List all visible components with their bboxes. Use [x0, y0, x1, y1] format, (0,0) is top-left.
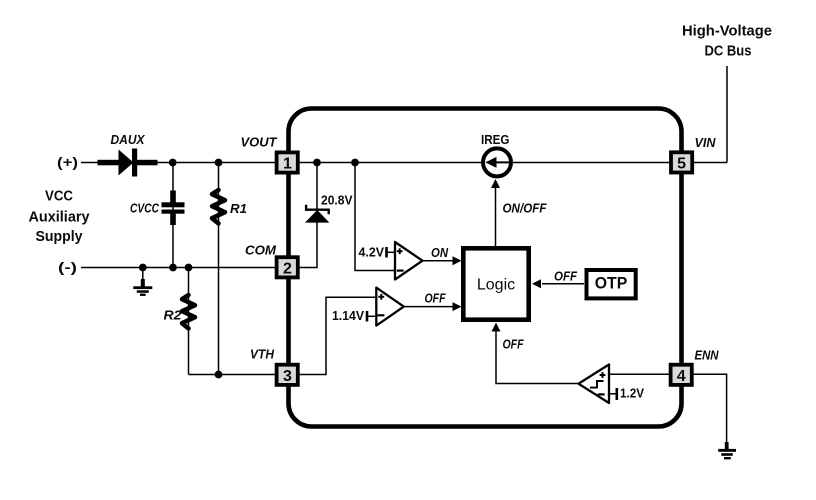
- resistor R1: [212, 190, 225, 224]
- zener diode 20.8V: [305, 205, 329, 223]
- wire OTP to Logic: [542, 283, 584, 285]
- wire VOUT rail external: [81, 162, 276, 164]
- svg-text:4.2V: 4.2V: [359, 246, 385, 260]
- wire pin3 to comparator2 plus: [299, 297, 376, 374]
- svg-text:20.8V: 20.8V: [321, 194, 353, 208]
- svg-text:VTH: VTH: [250, 348, 275, 362]
- junction dot VOUT-comp feed: [351, 159, 359, 167]
- Logic block: [463, 248, 528, 319]
- svg-text:1.2V: 1.2V: [620, 387, 645, 401]
- IC body outline: [289, 109, 682, 427]
- arrowhead OFF into Logic: [453, 302, 462, 311]
- svg-text:Logic: Logic: [477, 277, 515, 294]
- svg-text:Auxiliary: Auxiliary: [29, 210, 90, 226]
- svg-text:OFF: OFF: [503, 338, 524, 352]
- svg-text:1: 1: [283, 156, 292, 173]
- wire COM rail: [81, 267, 276, 269]
- current source IREG: [483, 148, 511, 176]
- reference 1.14V bar: [366, 311, 369, 322]
- wire 4.2V ref to plus input: [387, 251, 396, 253]
- wire ground stub left: [142, 268, 144, 282]
- ground left: [133, 279, 152, 296]
- wire pin4 external to ground: [693, 374, 727, 444]
- arrowhead ON into Logic: [453, 256, 462, 265]
- junction dot COM-R2: [185, 264, 193, 272]
- junction dot VOUT-zener: [313, 159, 321, 167]
- svg-text:R1: R1: [230, 202, 247, 216]
- svg-text:R2: R2: [164, 309, 182, 323]
- arrowhead OFF into Logic bottom: [492, 323, 501, 332]
- wire 1.14V ref to minus input: [367, 315, 376, 317]
- svg-text:IREG: IREG: [481, 132, 510, 147]
- wire High-Voltage DC bus vertical: [726, 66, 728, 163]
- svg-text:OFF: OFF: [554, 270, 577, 284]
- pin 5 box VIN: [671, 152, 692, 172]
- arrowhead OFF into Logic right: [532, 279, 541, 288]
- svg-text:DAUX: DAUX: [111, 133, 146, 147]
- svg-text:VIN: VIN: [695, 136, 717, 150]
- wire schmitt output to Logic bottom: [496, 331, 578, 384]
- svg-text:ON: ON: [431, 246, 449, 260]
- reference 1.2V bar: [615, 388, 618, 400]
- wire CVCC column: [172, 163, 174, 268]
- pin 1 box VOUT: [277, 152, 298, 172]
- ground right (ENN): [718, 442, 736, 459]
- svg-text:COM: COM: [245, 244, 277, 258]
- schmitt trigger ENN: [579, 365, 610, 404]
- svg-text:(+): (+): [57, 154, 78, 170]
- junction dot VTH-R1: [215, 371, 223, 379]
- wire VTH rail: [189, 374, 277, 376]
- junction dot COM-CVCC: [169, 264, 177, 272]
- resistor R2: [182, 295, 195, 329]
- svg-text:High-Voltage: High-Voltage: [682, 24, 772, 40]
- wire IREG to Logic ON/OFF: [495, 186, 497, 246]
- svg-text:4: 4: [677, 368, 686, 385]
- svg-text:(-): (-): [58, 259, 77, 275]
- OTP block: [587, 270, 636, 298]
- wire R2 column: [188, 268, 190, 375]
- svg-text:OFF: OFF: [425, 292, 446, 306]
- svg-text:CVCC: CVCC: [130, 202, 160, 216]
- junction dot VOUT-R1: [215, 159, 223, 167]
- svg-text:DC Bus: DC Bus: [705, 44, 752, 60]
- wire comparator1 output ON: [422, 260, 454, 262]
- svg-text:Supply: Supply: [36, 229, 83, 245]
- wire R1 column: [218, 163, 220, 375]
- svg-text:ON/OFF: ON/OFF: [503, 202, 547, 216]
- wire VOUT rail inside IC right: [513, 162, 671, 164]
- wire zener column: [299, 163, 317, 268]
- wire pin4 to schmitt plus input: [609, 373, 670, 375]
- pin 3 box VTH: [277, 365, 298, 385]
- comparator U1 4.2V: [395, 242, 423, 280]
- svg-text:5: 5: [677, 155, 686, 172]
- svg-text:VOUT: VOUT: [241, 136, 278, 150]
- comparator U2 1.14V: [376, 288, 404, 326]
- svg-text:3: 3: [283, 368, 292, 385]
- svg-text:ENN: ENN: [695, 349, 720, 363]
- svg-text:VCC: VCC: [45, 189, 73, 205]
- diode DAUX: [98, 149, 158, 177]
- wire 1.2V ref to minus input: [609, 393, 617, 395]
- pin 2 box COM: [277, 257, 298, 277]
- capacitor CVCC: [162, 191, 185, 226]
- pin 4 box ENN: [671, 365, 692, 385]
- svg-text:1.14V: 1.14V: [332, 309, 365, 323]
- wire VOUT rail inside IC left: [299, 162, 482, 164]
- wire comparator1 minus feed: [355, 163, 395, 271]
- wire comparator2 output OFF: [404, 306, 455, 308]
- arrowhead ON/OFF into IREG: [491, 179, 500, 188]
- junction dot VOUT-CVCC: [169, 159, 177, 167]
- reference 4.2V bar: [385, 247, 388, 258]
- wire VIN external horizontal: [693, 162, 727, 164]
- svg-text:2: 2: [283, 260, 292, 277]
- junction dot COM-ground: [139, 264, 147, 272]
- svg-text:OTP: OTP: [595, 275, 628, 293]
